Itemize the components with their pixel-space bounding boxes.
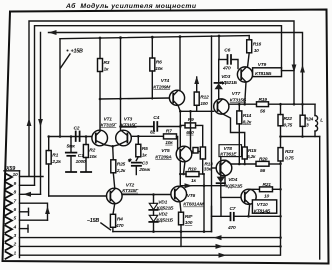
node R2	[85, 135, 88, 138]
svg-text:R22: R22	[284, 116, 293, 122]
svg-text:R4: R4	[117, 216, 123, 222]
svg-text:C2: C2	[74, 126, 80, 132]
VT6 box outline	[211, 206, 213, 231]
svg-text:10к: 10к	[165, 140, 173, 146]
svg-text:R20: R20	[259, 156, 268, 162]
svg-text:VT4: VT4	[161, 78, 170, 84]
wire VT6 collector vertical	[179, 111, 181, 186]
svg-text:100: 100	[185, 220, 193, 226]
svg-text:VT6: VT6	[187, 193, 196, 199]
node VD2 bottom	[152, 230, 155, 233]
svg-text:VT8: VT8	[224, 146, 233, 152]
wire VT5 emitter down	[184, 161, 186, 174]
svg-text:R3: R3	[104, 60, 110, 66]
svg-text:R5: R5	[142, 146, 148, 152]
svg-text:VT10: VT10	[257, 202, 268, 208]
svg-text:VD3: VD3	[221, 74, 230, 80]
node R24 top	[301, 103, 304, 106]
wire VT1/VT4 base rail	[100, 98, 170, 99]
svg-text:R16: R16	[253, 41, 262, 47]
svg-text:КТ315Г: КТ315Г	[121, 122, 138, 128]
diode VD3	[218, 89, 220, 99]
wire VT4 node to VT7 base	[180, 110, 213, 112]
pin3 wire bus	[20, 237, 281, 239]
arrow right on pin2 wire	[216, 244, 224, 249]
svg-text:КТ361Е: КТ361Е	[220, 152, 237, 158]
svg-text:1: 1	[14, 250, 17, 256]
svg-text:R15: R15	[248, 148, 257, 154]
+15V supply bus	[60, 36, 249, 39]
svg-text:5: 5	[14, 216, 17, 222]
wire R3 column	[99, 38, 101, 59]
node R24 bottom	[301, 135, 304, 138]
node R14 top	[238, 103, 241, 106]
svg-text:VT3: VT3	[124, 117, 133, 123]
node R3-VT4base wire	[99, 98, 102, 101]
svg-text:VD2: VD2	[159, 212, 168, 218]
pin10 wire	[20, 176, 44, 178]
node bus-VT4	[179, 35, 182, 38]
node R22 bottom	[279, 135, 282, 138]
node R21 right	[279, 188, 282, 191]
node R5 top	[137, 135, 140, 138]
capacitor C4	[121, 126, 154, 128]
pin8 wire	[20, 193, 41, 195]
svg-text:КТ601АМ: КТ601АМ	[183, 202, 204, 208]
resistor R1	[46, 151, 51, 165]
svg-text:2,2к: 2,2к	[116, 168, 126, 174]
arrow left end loop3	[49, 30, 57, 35]
resistor R12	[194, 92, 199, 105]
svg-text:0,75: 0,75	[284, 122, 293, 128]
node pin2 x280	[279, 245, 282, 248]
callout line +15V	[61, 54, 71, 68]
pin5 wire	[20, 219, 48, 221]
wire output down right	[319, 137, 321, 260]
input node wire to VT1 base	[49, 136, 92, 138]
resistor R23	[278, 148, 283, 161]
wire long vertical x211	[211, 36, 213, 232]
wire VT5 collector up	[190, 111, 192, 148]
arrow up pin7-pin5 vertical	[45, 206, 50, 214]
diode VD1	[153, 195, 155, 204]
node R22 top	[279, 103, 282, 106]
VT10 label box	[252, 200, 276, 213]
svg-text:КТ315Г: КТ315Г	[101, 122, 118, 128]
svg-text:33к: 33к	[204, 166, 212, 172]
svg-text:100: 100	[200, 101, 208, 107]
svg-text:–15В: –15В	[87, 218, 99, 224]
resistor R15	[242, 147, 247, 159]
svg-text:3: 3	[14, 233, 17, 239]
connector X59 underline	[4, 170, 20, 172]
wire VT2 base	[49, 195, 107, 197]
wire VT2 emitter to R4	[113, 203, 115, 214]
svg-text:VT5: VT5	[161, 148, 170, 154]
transistor VT9	[237, 67, 252, 82]
svg-text:C6: C6	[224, 48, 230, 54]
svg-text:82: 82	[150, 129, 155, 135]
transistor VT7	[214, 99, 229, 114]
capacitor C1	[70, 137, 72, 153]
node R1 top	[47, 135, 50, 138]
resistor R5	[136, 144, 141, 157]
capacitor C7	[212, 215, 231, 217]
wire VT10 emitter	[249, 204, 250, 216]
capacitor C2	[75, 132, 77, 142]
arrow left on pin3 wire	[214, 235, 222, 240]
wire bus to C6	[218, 36, 220, 60]
svg-text:6: 6	[14, 207, 17, 213]
node VT3 collector	[119, 98, 122, 101]
svg-text:10: 10	[254, 48, 259, 54]
node R10 left	[179, 173, 182, 176]
node bus-R6	[151, 36, 154, 39]
arrow left on pin8 wire	[23, 192, 31, 197]
svg-text:9: 9	[14, 181, 17, 187]
resistor R16	[247, 40, 252, 53]
arrow down top right	[292, 65, 297, 73]
svg-text:1к: 1к	[104, 67, 109, 73]
arrow right on pin1 wire	[219, 253, 227, 258]
svg-text:VD1: VD1	[158, 200, 167, 206]
capacitor C6	[219, 59, 228, 61]
svg-text:8,2к: 8,2к	[243, 119, 252, 125]
wire vertical to pin8	[40, 33, 42, 195]
transistor VT2	[107, 188, 123, 204]
node C4 right	[179, 125, 182, 128]
svg-text:R25: R25	[117, 162, 126, 168]
connector spine	[19, 171, 21, 258]
svg-text:20мк: 20мк	[138, 167, 150, 173]
transistor VT10	[241, 189, 256, 204]
pin chevron 10	[6, 174, 13, 181]
node bus-R3	[99, 37, 102, 40]
transistor VT6	[171, 186, 187, 202]
svg-text:7: 7	[14, 198, 17, 204]
svg-text:R19: R19	[259, 97, 268, 103]
node C1	[70, 135, 73, 138]
wire VT4 emitter to node	[178, 105, 180, 111]
diode VD4	[220, 157, 222, 177]
arrow up on loop1 vertical	[27, 118, 32, 126]
transistor VT4	[169, 90, 184, 105]
svg-text:6,2к: 6,2к	[247, 154, 256, 160]
component bump VT5 right	[192, 151, 193, 153]
resistor R24	[300, 115, 305, 126]
arrow up right vertical	[300, 65, 305, 73]
svg-text:R2: R2	[89, 148, 95, 154]
svg-text:R21: R21	[263, 182, 272, 188]
wire VT7 collector to R19	[229, 103, 257, 105]
transistor VT1	[92, 130, 108, 146]
arrow down on pin8 vertical	[38, 119, 43, 127]
node x204 arrow wire	[203, 184, 206, 187]
wire VT8 base	[212, 167, 217, 169]
transistor VT3	[116, 130, 132, 146]
svg-text:1к: 1к	[142, 152, 147, 158]
resistor R14	[237, 111, 242, 124]
node VT1/VT3 emitters	[111, 145, 114, 148]
pin chevron 1	[6, 252, 13, 259]
bottom rail wire	[113, 231, 212, 233]
pin chevron 5	[6, 217, 13, 224]
wire output rail	[281, 136, 320, 138]
pin chevron 8	[6, 191, 13, 198]
wire VT3 base to R7	[131, 135, 163, 137]
pin2 wire bus	[20, 245, 281, 247]
node VT4 emitter	[179, 110, 182, 113]
svg-text:R8*: R8*	[185, 214, 194, 220]
resistor R9	[185, 123, 196, 128]
wire VT9 emitter down	[245, 82, 246, 104]
resistor R25	[111, 160, 116, 173]
svg-text:Аб Модуль усилителя мощности: Аб Модуль усилителя мощности	[65, 2, 197, 10]
resistor R10	[186, 172, 199, 177]
svg-text:R12: R12	[200, 95, 209, 101]
wire VT6 collector arrow branch	[181, 185, 204, 187]
svg-text:С7: С7	[230, 206, 236, 212]
svg-text:КД521Б: КД521Б	[156, 218, 173, 224]
transistor VT8	[216, 160, 232, 176]
svg-text:КТ315Г: КТ315Г	[122, 188, 139, 194]
node C4 branch	[119, 125, 122, 128]
wire x204 vertical	[203, 174, 205, 232]
svg-text:КД521Б: КД521Б	[226, 183, 243, 189]
node pin3 x280	[279, 236, 282, 239]
svg-text:1к: 1к	[191, 178, 196, 184]
inductor L	[314, 104, 316, 115]
node VD1 top	[152, 193, 155, 196]
svg-text:КТ815Б: КТ815Б	[255, 71, 272, 77]
svg-text:КД521Б: КД521Б	[220, 80, 237, 86]
svg-text:R10: R10	[188, 166, 197, 172]
wire top loop 1	[29, 21, 294, 176]
svg-text:КТ209М: КТ209М	[153, 84, 171, 90]
svg-text:0,75: 0,75	[285, 155, 294, 161]
svg-text:1000: 1000	[76, 159, 86, 165]
pin chevron 6	[6, 208, 13, 215]
resistor R8	[179, 212, 184, 225]
svg-text:3: 3	[306, 123, 309, 129]
VT9 label box	[253, 68, 282, 77]
resistor R13	[200, 147, 205, 159]
svg-text:470: 470	[227, 225, 236, 231]
svg-text:470: 470	[222, 65, 231, 71]
resistor R7	[164, 134, 177, 139]
wire top loop 3	[49, 33, 303, 116]
resistor R4	[110, 214, 115, 227]
pin9 wire	[20, 184, 35, 186]
svg-text:R6: R6	[156, 60, 162, 66]
svg-text:R7: R7	[166, 128, 172, 134]
node bus-VT3	[119, 36, 122, 39]
wire top loop 2	[35, 26, 282, 185]
svg-text:L: L	[320, 117, 323, 123]
capacitor C3	[132, 162, 141, 164]
resistor R3	[98, 59, 103, 72]
svg-text:VD4: VD4	[228, 177, 237, 183]
svg-text:56: 56	[260, 168, 265, 174]
wire VT2 emitter rail to VT6 base	[122, 194, 171, 196]
diode VD2	[149, 215, 157, 221]
resistor R6	[150, 58, 155, 71]
svg-text:2,2к: 2,2к	[51, 159, 61, 165]
svg-text:VT1: VT1	[104, 117, 113, 123]
svg-text:КТ209А: КТ209А	[155, 154, 172, 160]
pin6 stub with tick	[20, 211, 29, 213]
wire VT7 emitter	[222, 114, 244, 147]
svg-text:C4: C4	[153, 115, 159, 121]
node x204 rail	[203, 230, 206, 233]
svg-text:C3: C3	[142, 161, 148, 167]
wire VT10 collector to R21	[250, 188, 260, 191]
callout line -15V	[101, 223, 111, 230]
pin chevron 3	[6, 234, 13, 241]
svg-text:VT7: VT7	[232, 91, 241, 97]
svg-text:+15В: +15В	[71, 49, 84, 55]
svg-text:КТ814Б: КТ814Б	[254, 208, 271, 214]
resistor R19	[257, 102, 269, 107]
svg-text:10к: 10к	[89, 154, 97, 160]
transistor VT5	[176, 146, 192, 162]
node +15 feed	[59, 135, 62, 138]
pin chevron 9	[6, 182, 13, 189]
wire VT2 collector to R25	[113, 173, 115, 189]
resistor R2	[83, 145, 88, 158]
svg-text:VT2: VT2	[126, 182, 135, 188]
node bus-C6 branch	[218, 35, 221, 38]
svg-text:10: 10	[264, 193, 269, 199]
pin4 stub with tick	[20, 228, 29, 230]
svg-text:R1: R1	[52, 153, 58, 159]
wire VT9 box to arrow	[282, 70, 295, 72]
wire +15 vertical feed	[59, 39, 61, 137]
svg-text:470: 470	[115, 223, 124, 229]
node R8 bottom rail	[180, 230, 183, 233]
svg-text:8: 8	[14, 190, 17, 196]
svg-text:10к: 10к	[155, 66, 163, 72]
svg-text:VT9: VT9	[258, 62, 267, 68]
svg-text:56: 56	[260, 108, 265, 114]
svg-text:R14: R14	[243, 113, 252, 119]
pin chevron 2	[6, 243, 13, 250]
wire VT4 collector top	[179, 37, 181, 91]
wire VT8 emitter down	[224, 176, 226, 186]
wire VT8 collector to rail	[226, 160, 231, 164]
svg-text:R23: R23	[285, 149, 294, 155]
pin7 wire	[20, 203, 48, 220]
pin chevron 4	[6, 226, 13, 233]
resistor R22	[278, 115, 283, 126]
resistor R20	[256, 161, 269, 166]
pin1 wire bus	[20, 164, 281, 256]
wire VT3 collector column	[120, 38, 122, 131]
wire R20 rail	[231, 163, 256, 165]
wire R6 column	[151, 37, 153, 58]
pin chevron 7	[6, 200, 13, 207]
resistor R21	[260, 187, 273, 192]
svg-text:КД521Б: КД521Б	[157, 206, 174, 212]
svg-text:R24: R24	[305, 116, 314, 122]
